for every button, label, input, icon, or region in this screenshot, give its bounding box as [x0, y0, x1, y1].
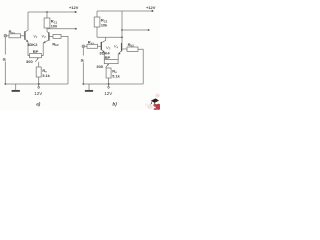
transistor V3 bar — [100, 42, 102, 50]
svg-text:V4: V4 — [114, 44, 119, 50]
watermark logo: graduation cap — [145, 94, 161, 111]
svg-text:RC2: RC2 — [101, 18, 108, 24]
svg-text:V1: V1 — [33, 33, 38, 39]
resistor Rb1 (b) box — [87, 44, 98, 48]
bottom rail b — [83, 83, 143, 85]
coupling wire b — [97, 36, 122, 38]
input terminal a — [4, 35, 7, 38]
transistor V2 bar — [48, 32, 50, 40]
svg-text:Re: Re — [112, 68, 117, 74]
wire V4 collector from rail — [121, 11, 123, 43]
wire V4 emitter with arrow — [118, 51, 121, 60]
svg-text:V2: V2 — [41, 33, 46, 39]
wire wiper to Re (b) — [108, 67, 110, 69]
wire V1 emitter with arrow — [25, 39, 28, 54]
bottom rail a — [5, 83, 68, 85]
output terminal a — [75, 28, 77, 30]
svg-text:Rb2: Rb2 — [128, 42, 135, 48]
wire V2 base — [50, 35, 54, 37]
svg-text:+12V: +12V — [146, 5, 156, 10]
ground symbol b — [88, 84, 90, 90]
wire V3 emitter with arrow — [101, 49, 104, 60]
wire V1 collector — [25, 12, 28, 32]
wire V2 emitter with arrow — [43, 40, 49, 54]
wire Re to rail (b) — [108, 78, 110, 84]
svg-text:3DK2: 3DK2 — [27, 42, 38, 47]
svg-text:5.1k: 5.1k — [112, 74, 120, 78]
svg-text:RP: RP — [33, 49, 39, 54]
resistor Rb2 (a) box — [53, 34, 61, 38]
resistor Re (a) box — [36, 67, 41, 77]
negative supply stub a — [38, 84, 40, 87]
wire Re to rail (a) — [38, 77, 40, 84]
node +12V terminal a — [75, 11, 77, 13]
svg-text:Rb1: Rb1 — [88, 40, 95, 46]
negative supply stub b — [108, 84, 110, 87]
wiper arrow RP (a) — [35, 58, 38, 62]
resistor Rb1 (a) box — [9, 34, 21, 38]
output wire a — [47, 28, 75, 30]
svg-text:12V: 12V — [34, 91, 42, 96]
circuit a : top supply rail — [28, 11, 75, 13]
ground symbol a — [15, 84, 17, 90]
svg-text:3DK4: 3DK4 — [99, 51, 110, 56]
svg-text:300: 300 — [26, 59, 33, 64]
svg-text:Re: Re — [42, 68, 47, 74]
svg-text:Rb1: Rb1 — [9, 29, 16, 35]
wire input down b — [82, 48, 84, 84]
input terminal b — [82, 45, 85, 48]
svg-text:RC1: RC1 — [51, 19, 58, 25]
resistor RC2 (b) — [96, 11, 98, 17]
wire Rb2 to bottom rail b — [138, 49, 143, 84]
junction dots rail a — [4, 83, 6, 85]
circuit b : top supply rail — [97, 10, 152, 12]
watermark logo: red seal — [153, 104, 156, 107]
output terminal b — [148, 29, 150, 31]
resistor Rb2 (b) box — [127, 47, 138, 51]
wire Rb2 to bottom rail a — [61, 36, 68, 84]
wire wiper to Re (a) — [38, 62, 40, 67]
wire V4 base — [122, 48, 127, 50]
wire V1 base — [21, 35, 25, 37]
transistor V1 bar — [24, 31, 26, 39]
wire input down a — [4, 37, 6, 84]
svg-text:Rb2: Rb2 — [52, 41, 59, 47]
svg-text:300: 300 — [96, 64, 103, 69]
wire V3 base — [98, 45, 101, 47]
junction dots rail b — [82, 83, 84, 85]
svg-text:5.1k: 5.1k — [42, 74, 50, 78]
potentiometer RP (a) box — [30, 54, 42, 58]
potentiometer RP (b) box — [104, 60, 118, 64]
svg-text:10k: 10k — [101, 24, 108, 28]
wiper arrow RP (b) — [106, 64, 109, 68]
node +12V terminal b — [151, 10, 153, 12]
resistor Re (b) box — [106, 68, 111, 78]
svg-text:ui: ui — [81, 57, 85, 63]
transistor V4 bar — [121, 43, 123, 51]
resistor RC1 (a) — [46, 11, 48, 13]
transistor V3 collector — [102, 37, 106, 42]
svg-text:100: 100 — [51, 25, 57, 29]
svg-text:a): a) — [36, 102, 41, 107]
svg-text:+12V: +12V — [69, 5, 79, 10]
svg-text:ui: ui — [3, 56, 7, 62]
svg-text:12V: 12V — [104, 91, 112, 96]
output wire b — [122, 29, 148, 31]
svg-text:b): b) — [112, 102, 117, 107]
